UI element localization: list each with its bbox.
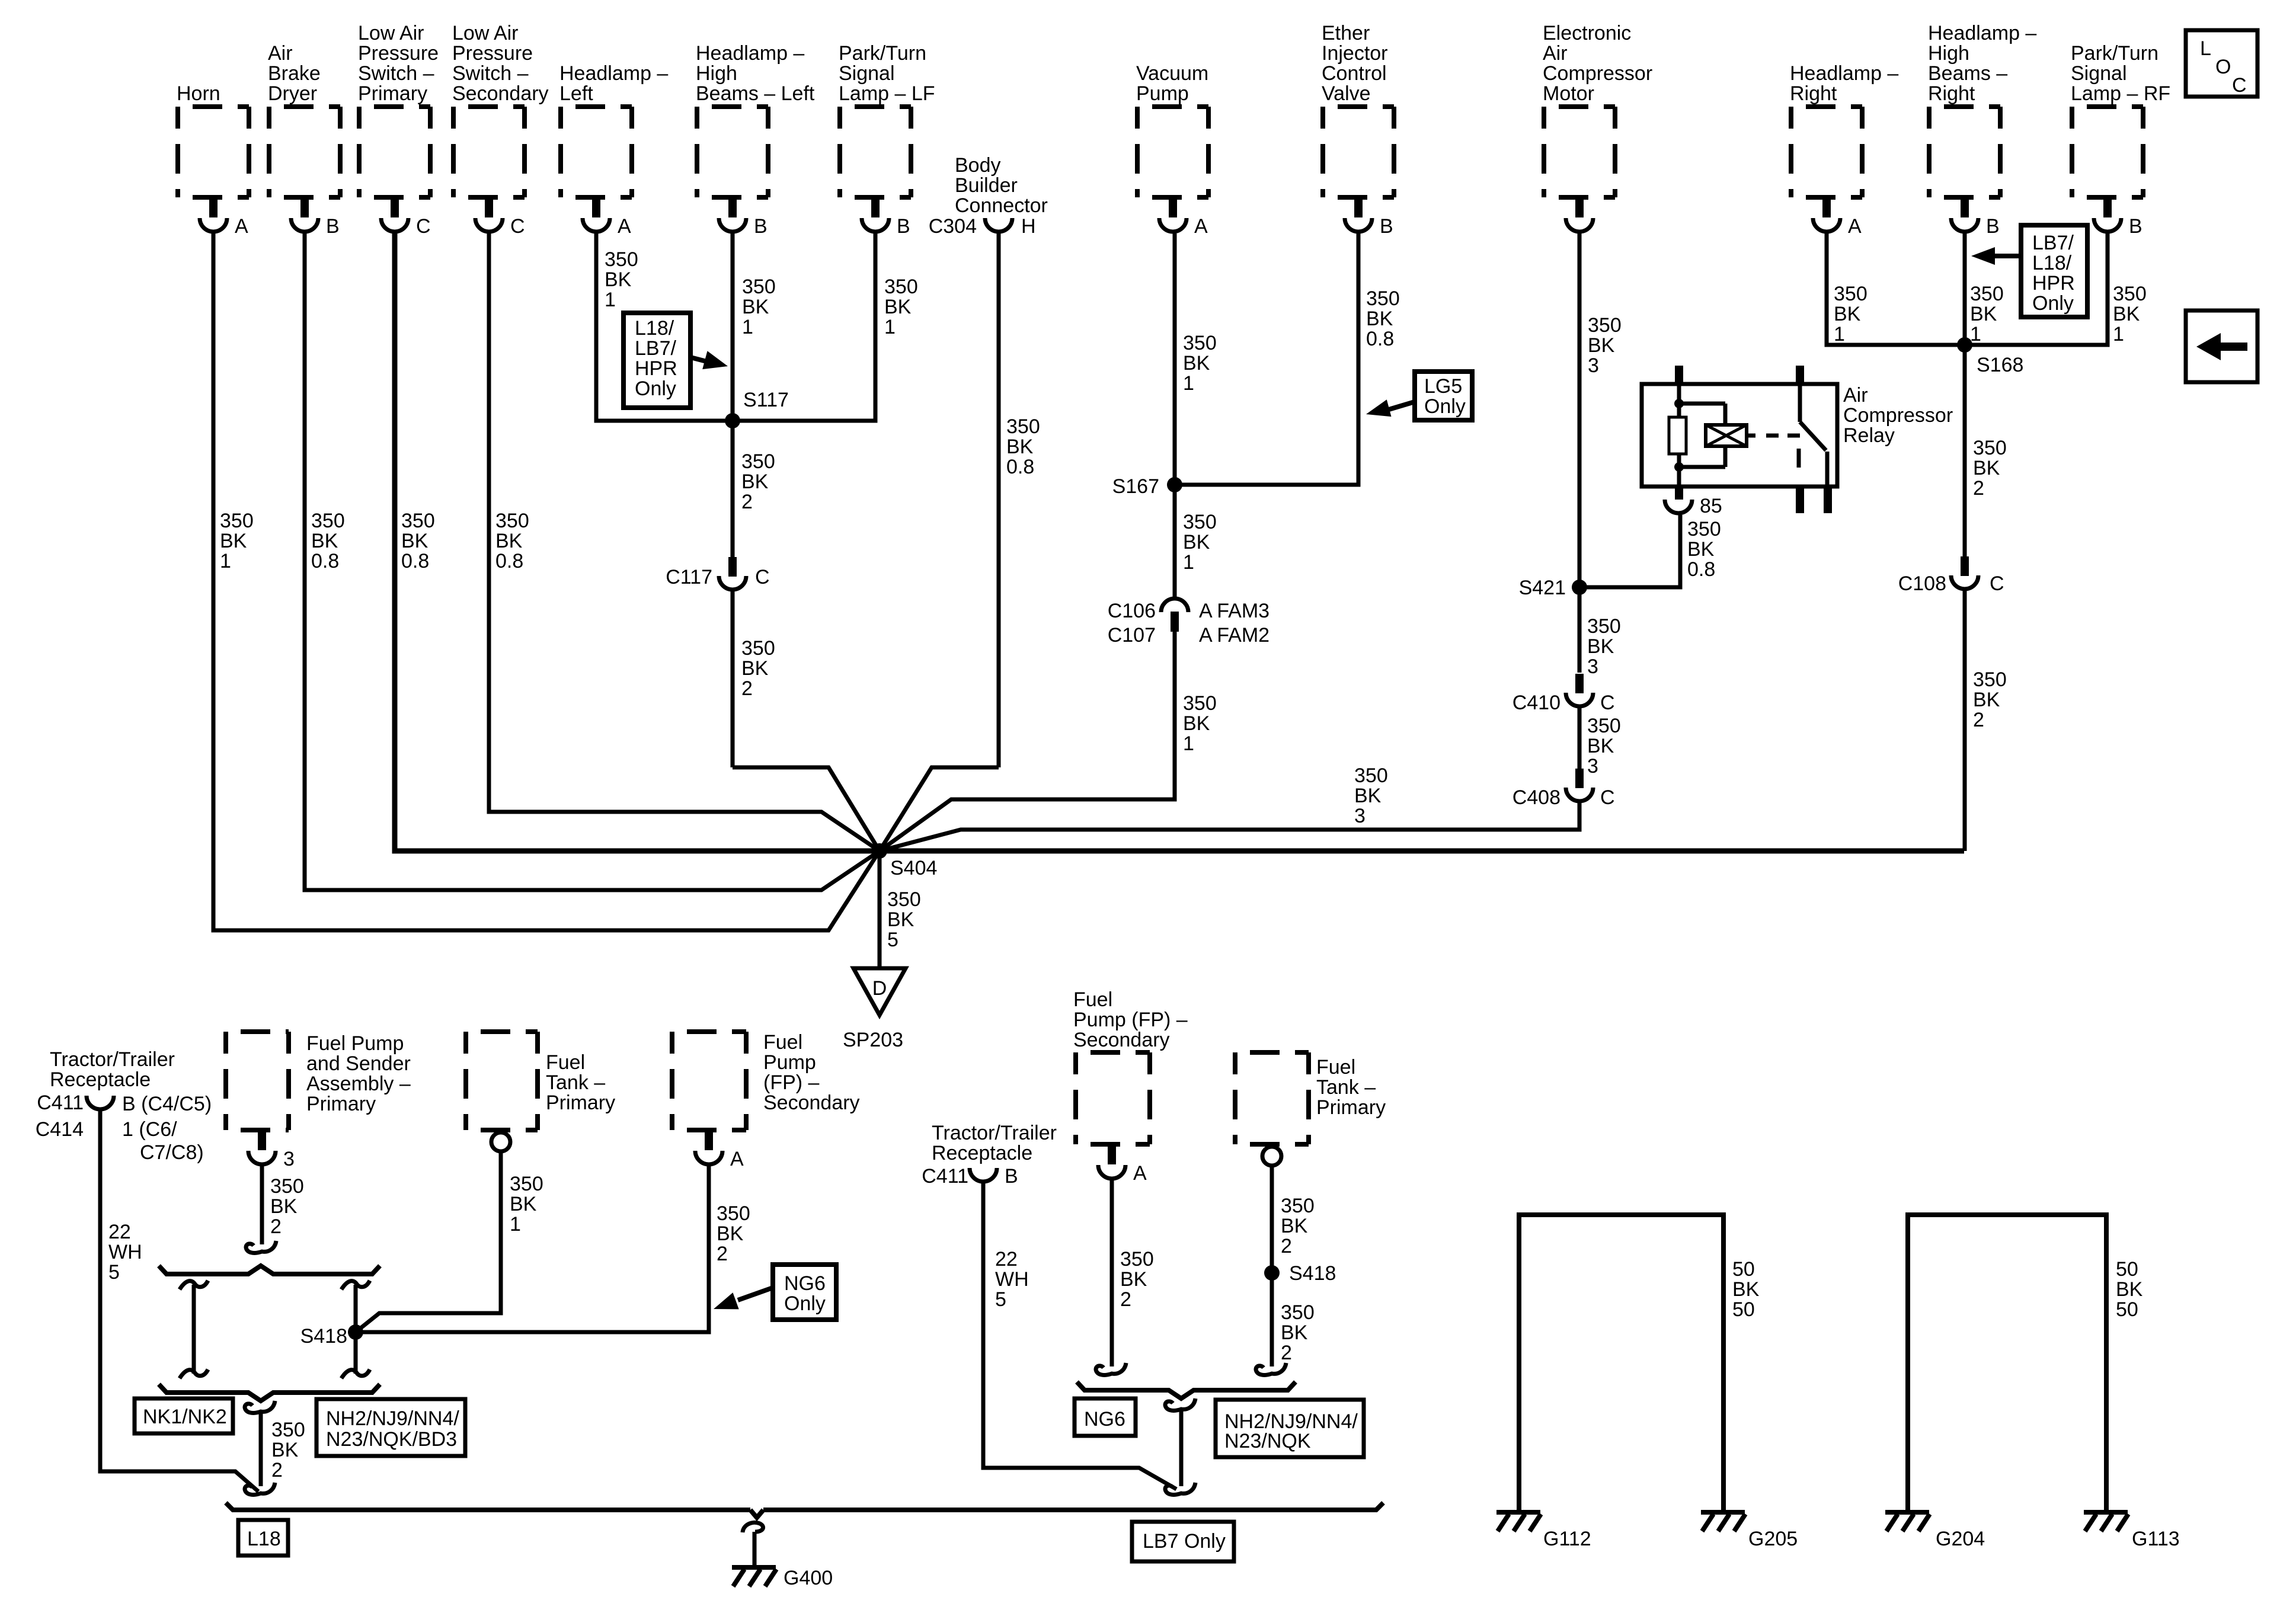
svg-text:C: C [510,215,525,238]
svg-text:A: A [1133,1162,1147,1185]
svg-text:350: 350 [605,248,638,271]
svg-text:WH: WH [995,1268,1029,1291]
svg-text:G400: G400 [784,1567,833,1589]
svg-text:A: A [235,215,248,238]
svg-text:350: 350 [270,1175,304,1198]
svg-text:L18: L18 [247,1528,281,1550]
svg-text:G113: G113 [2132,1528,2180,1550]
svg-text:N23/NQK: N23/NQK [1224,1430,1311,1452]
svg-text:1: 1 [1183,732,1194,755]
svg-text:S168: S168 [1977,354,2023,376]
svg-text:B: B [1380,215,1393,238]
svg-text:Fuel: Fuel [546,1051,585,1074]
svg-text:High: High [1928,42,1969,65]
svg-text:1: 1 [742,316,753,338]
svg-text:Beams – Left: Beams – Left [696,82,815,105]
svg-text:C: C [1990,572,2004,595]
svg-text:350: 350 [1588,314,1622,337]
svg-text:S117: S117 [743,389,789,411]
svg-text:L18/: L18/ [635,317,674,340]
svg-text:Right: Right [1790,82,1837,105]
svg-text:SP203: SP203 [843,1029,903,1051]
svg-text:LG5: LG5 [1424,375,1462,398]
svg-text:Vacuum: Vacuum [1136,62,1208,85]
svg-text:Switch –: Switch – [358,62,434,85]
svg-text:D: D [872,977,887,1000]
svg-text:1: 1 [2113,323,2124,345]
svg-text:Only: Only [2032,292,2074,315]
svg-text:BK: BK [884,296,912,318]
svg-text:BK: BK [1183,531,1210,553]
svg-text:Dryer: Dryer [268,82,317,105]
svg-text:NH2/NJ9/NN4/: NH2/NJ9/NN4/ [326,1407,459,1430]
svg-text:G205: G205 [1748,1528,1798,1550]
svg-text:BK: BK [1281,1321,1308,1344]
svg-text:High: High [696,62,737,85]
svg-text:50: 50 [2116,1258,2138,1281]
svg-text:350: 350 [1687,518,1721,540]
svg-text:Fuel Pump: Fuel Pump [306,1032,404,1055]
svg-text:Secondary: Secondary [1073,1029,1170,1051]
svg-text:Receptacle: Receptacle [50,1068,151,1091]
svg-text:BK: BK [1587,635,1614,658]
svg-text:BK: BK [887,908,914,931]
svg-text:50: 50 [1732,1298,1755,1321]
svg-text:B: B [754,215,768,238]
svg-text:Only: Only [1424,395,1466,418]
svg-text:Lamp – LF: Lamp – LF [839,82,935,105]
svg-text:Electronic: Electronic [1543,22,1631,44]
svg-text:2: 2 [741,677,753,700]
svg-text:Signal: Signal [839,62,895,85]
svg-text:1: 1 [1834,323,1845,345]
svg-text:5: 5 [108,1261,120,1284]
svg-text:B (C4/C5): B (C4/C5) [122,1093,212,1115]
svg-text:Horn: Horn [177,82,220,105]
svg-text:350: 350 [1281,1195,1315,1217]
svg-text:S404: S404 [890,857,937,879]
svg-text:BK: BK [2116,1278,2143,1301]
svg-text:Connector: Connector [955,194,1048,217]
svg-text:A FAM2: A FAM2 [1199,624,1269,647]
svg-text:C: C [1600,786,1615,809]
svg-text:5: 5 [887,929,898,951]
svg-text:Air: Air [1843,384,1868,407]
svg-text:Signal: Signal [2071,62,2127,85]
svg-text:1: 1 [1183,551,1194,574]
svg-text:C: C [1600,692,1615,714]
svg-text:Headlamp –: Headlamp – [559,62,668,85]
svg-text:1: 1 [884,316,896,338]
svg-text:350: 350 [1183,511,1217,533]
svg-text:350: 350 [311,510,345,532]
svg-text:Assembly –: Assembly – [306,1073,411,1095]
svg-text:G204: G204 [1936,1528,1985,1550]
svg-text:350: 350 [220,510,254,532]
svg-text:Pressure: Pressure [358,42,439,65]
svg-text:C304: C304 [929,215,977,238]
svg-text:1: 1 [510,1213,521,1236]
svg-text:WH: WH [108,1241,142,1263]
svg-text:B: B [326,215,340,238]
svg-text:Secondary: Secondary [452,82,549,105]
svg-text:L18/: L18/ [2032,252,2072,274]
svg-text:2: 2 [271,1459,283,1481]
svg-text:1: 1 [605,289,616,311]
svg-text:Switch –: Switch – [452,62,529,85]
svg-text:3: 3 [283,1148,295,1170]
svg-text:Fuel: Fuel [763,1031,802,1054]
svg-text:BK: BK [1834,303,1861,325]
svg-text:BK: BK [717,1222,744,1245]
svg-text:50: 50 [1732,1258,1755,1281]
svg-text:Left: Left [559,82,593,105]
svg-text:C408: C408 [1512,786,1560,809]
svg-text:350: 350 [884,276,918,298]
svg-text:2: 2 [1281,1235,1292,1257]
svg-text:Tank –: Tank – [1316,1076,1376,1099]
svg-text:350: 350 [1183,332,1217,354]
svg-text:50: 50 [2116,1298,2138,1321]
svg-text:C411: C411 [37,1092,84,1114]
svg-text:Receptacle: Receptacle [932,1142,1032,1164]
svg-text:22: 22 [995,1248,1018,1270]
svg-text:C: C [2232,74,2247,97]
svg-text:5: 5 [995,1288,1006,1311]
svg-text:350: 350 [1120,1248,1154,1270]
svg-text:0.8: 0.8 [1366,328,1394,350]
svg-text:B: B [1986,215,2000,238]
svg-text:350: 350 [742,276,776,298]
svg-text:BK: BK [1973,689,2000,711]
svg-text:0.8: 0.8 [1687,558,1715,581]
svg-text:Builder: Builder [955,174,1018,197]
svg-text:Pressure: Pressure [452,42,533,65]
svg-text:350: 350 [741,450,775,473]
svg-text:0.8: 0.8 [1006,456,1034,478]
svg-text:S418: S418 [1289,1262,1336,1285]
svg-text:Headlamp –: Headlamp – [1790,62,1898,85]
svg-text:BK: BK [495,530,523,552]
svg-text:BK: BK [1732,1278,1760,1301]
svg-text:BK: BK [1183,352,1210,375]
svg-text:A: A [1194,215,1208,238]
svg-text:0.8: 0.8 [495,550,523,572]
svg-text:2: 2 [717,1243,728,1265]
svg-text:1: 1 [1183,372,1194,395]
svg-text:1 (C6/: 1 (C6/ [122,1118,177,1141]
svg-text:(FP) –: (FP) – [763,1071,820,1094]
svg-text:350: 350 [495,510,529,532]
svg-text:C: C [416,215,431,238]
svg-text:Fuel: Fuel [1316,1056,1355,1078]
svg-text:NK1/NK2: NK1/NK2 [143,1406,227,1428]
svg-text:BK: BK [1354,785,1382,807]
svg-text:Tractor/Trailer: Tractor/Trailer [50,1048,175,1071]
svg-text:Headlamp –: Headlamp – [1928,22,2036,44]
svg-text:C: C [755,566,770,588]
svg-text:350: 350 [1183,692,1217,715]
svg-text:BK: BK [1970,303,1997,325]
svg-text:Compressor: Compressor [1543,62,1652,85]
svg-text:Primary: Primary [306,1093,376,1115]
svg-text:350: 350 [741,637,775,660]
svg-text:C108: C108 [1898,572,1946,595]
svg-text:BK: BK [1687,538,1715,561]
svg-text:BK: BK [220,530,247,552]
svg-text:A: A [730,1148,744,1170]
svg-text:LB7/: LB7/ [635,337,676,360]
svg-text:2: 2 [1973,477,1984,500]
svg-text:3: 3 [1587,655,1598,678]
svg-text:C107: C107 [1108,624,1156,647]
svg-text:C410: C410 [1512,692,1560,714]
svg-text:LB7 Only: LB7 Only [1143,1530,1226,1553]
svg-text:HPR: HPR [635,357,677,380]
svg-text:S421: S421 [1519,577,1566,599]
svg-text:350: 350 [1587,615,1621,638]
svg-text:350: 350 [401,510,435,532]
svg-text:350: 350 [2113,283,2147,305]
svg-text:BK: BK [742,296,769,318]
svg-text:L: L [2200,37,2211,60]
svg-text:Pump: Pump [763,1051,816,1074]
svg-text:Primary: Primary [546,1092,615,1114]
svg-text:2: 2 [270,1215,282,1238]
svg-text:Tank –: Tank – [546,1071,605,1094]
svg-text:BK: BK [1588,334,1615,357]
svg-text:Park/Turn: Park/Turn [2071,42,2159,65]
svg-text:G112: G112 [1543,1528,1591,1550]
svg-text:N23/NQK/BD3: N23/NQK/BD3 [326,1428,457,1451]
svg-text:C117: C117 [666,566,712,588]
svg-text:Beams –: Beams – [1928,62,2007,85]
svg-text:S167: S167 [1112,475,1159,498]
svg-text:350: 350 [887,888,921,911]
svg-text:350: 350 [717,1202,750,1225]
svg-text:BK: BK [271,1439,299,1461]
svg-text:Pump: Pump [1136,82,1189,105]
svg-text:HPR: HPR [2032,272,2075,295]
svg-text:BK: BK [741,657,769,680]
svg-text:0.8: 0.8 [311,550,339,572]
svg-text:A: A [618,215,631,238]
svg-text:S418: S418 [300,1325,347,1348]
svg-text:Primary: Primary [1316,1096,1386,1119]
svg-text:BK: BK [1587,735,1614,757]
svg-text:BK: BK [401,530,428,552]
svg-text:350: 350 [1970,283,2004,305]
svg-text:B: B [1005,1165,1018,1188]
svg-text:Park/Turn: Park/Turn [839,42,926,65]
svg-text:Relay: Relay [1843,424,1895,447]
svg-text:Only: Only [784,1292,826,1315]
svg-text:350: 350 [1834,283,1868,305]
svg-text:Fuel: Fuel [1073,988,1112,1011]
svg-text:22: 22 [108,1221,131,1243]
svg-text:85: 85 [1700,495,1722,517]
svg-text:Primary: Primary [358,82,427,105]
svg-text:BK: BK [311,530,338,552]
svg-text:Body: Body [955,154,1001,177]
svg-text:3: 3 [1587,755,1598,777]
svg-text:2: 2 [1973,709,1984,731]
svg-text:Low Air: Low Air [452,22,519,44]
svg-text:BK: BK [270,1195,298,1218]
svg-text:350: 350 [1973,668,2007,691]
svg-text:1: 1 [1970,323,1981,345]
svg-text:3: 3 [1354,805,1366,827]
svg-text:Tractor/Trailer: Tractor/Trailer [932,1122,1057,1144]
svg-text:NG6: NG6 [1084,1408,1125,1430]
svg-text:350: 350 [1973,437,2007,459]
svg-text:350: 350 [1366,287,1400,310]
svg-text:350: 350 [1281,1301,1315,1324]
svg-text:350: 350 [1587,715,1621,737]
svg-text:Pump (FP) –: Pump (FP) – [1073,1009,1188,1031]
svg-text:NG6: NG6 [784,1272,826,1295]
svg-text:2: 2 [1281,1342,1292,1364]
svg-text:Air: Air [268,42,293,65]
svg-text:Compressor: Compressor [1843,404,1953,427]
svg-text:Secondary: Secondary [763,1092,860,1114]
svg-text:Control: Control [1322,62,1387,85]
svg-text:BK: BK [1006,436,1034,458]
svg-text:Injector: Injector [1322,42,1388,65]
svg-text:O: O [2215,56,2231,78]
svg-text:H: H [1021,215,1036,238]
svg-text:BK: BK [2113,303,2140,325]
svg-text:BK: BK [510,1193,537,1215]
svg-text:2: 2 [1120,1288,1131,1311]
svg-text:Ether: Ether [1322,22,1370,44]
svg-text:Lamp – RF: Lamp – RF [2071,82,2170,105]
svg-text:C414: C414 [36,1118,84,1141]
svg-text:3: 3 [1588,354,1599,377]
svg-text:A FAM3: A FAM3 [1199,600,1269,622]
svg-text:BK: BK [1281,1215,1308,1237]
svg-text:Only: Only [635,377,676,400]
svg-text:Brake: Brake [268,62,321,85]
svg-text:A: A [1848,215,1862,238]
svg-text:Air: Air [1543,42,1568,65]
svg-text:LB7/: LB7/ [2032,232,2074,254]
svg-text:Headlamp –: Headlamp – [696,42,804,65]
svg-text:C411: C411 [922,1165,968,1188]
svg-text:C7/C8): C7/C8) [140,1141,204,1164]
svg-text:and Sender: and Sender [306,1052,411,1075]
svg-text:350: 350 [1354,764,1388,787]
svg-text:Motor: Motor [1543,82,1594,105]
svg-text:BK: BK [741,471,769,493]
svg-text:B: B [2129,215,2142,238]
svg-text:BK: BK [1973,457,2000,479]
svg-text:BK: BK [1183,712,1210,735]
svg-text:350: 350 [1006,415,1040,438]
svg-text:2: 2 [741,491,753,513]
svg-text:BK: BK [605,268,632,291]
svg-text:Low Air: Low Air [358,22,424,44]
svg-text:1: 1 [220,550,231,572]
svg-text:BK: BK [1366,308,1393,330]
svg-text:Valve: Valve [1322,82,1371,105]
svg-text:350: 350 [271,1419,305,1441]
svg-text:B: B [897,215,910,238]
svg-text:0.8: 0.8 [401,550,429,572]
svg-text:350: 350 [510,1173,543,1195]
svg-text:Right: Right [1928,82,1975,105]
svg-text:C106: C106 [1108,600,1156,622]
svg-text:BK: BK [1120,1268,1147,1291]
